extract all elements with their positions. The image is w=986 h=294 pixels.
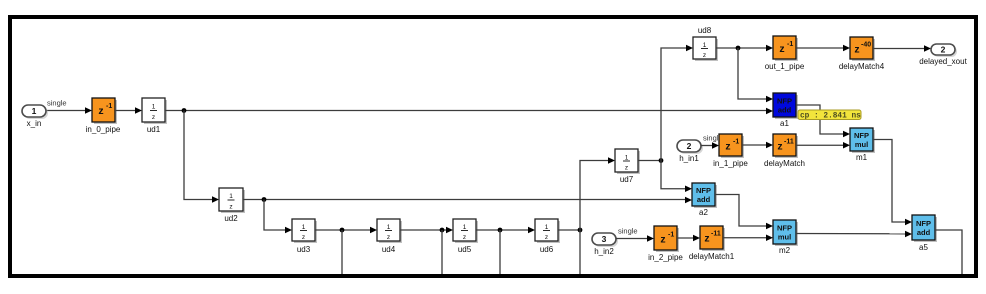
svg-text:1: 1 [302,224,306,231]
svg-text:m2: m2 [779,246,791,255]
svg-text:3: 3 [602,234,607,244]
svg-text:ud5: ud5 [458,245,472,254]
svg-text:NFP: NFP [696,186,711,195]
output port delayed_xout [919,44,967,66]
svg-text:x_in: x_in [27,119,42,128]
junction after ud6 [578,228,583,233]
svg-text:2: 2 [687,141,692,151]
wire junction ud3 down to border [341,230,343,274]
svg-text:z: z [779,43,784,55]
delay block in_2_pipe [648,226,683,262]
svg-text:2: 2 [941,45,946,55]
svg-text:NFP: NFP [777,224,792,233]
svg-text:in_2_pipe: in_2_pipe [648,253,683,262]
junction after ud1 [182,108,187,113]
multiplier m2 [773,220,798,255]
unit delay ud4 [377,219,402,254]
junction after ud4 [440,228,445,233]
svg-text:z: z [387,234,390,241]
svg-text:z: z [152,114,155,121]
svg-text:1: 1 [545,224,549,231]
unit delay ud5 [453,219,478,254]
svg-text:mul: mul [855,140,868,149]
svg-text:add: add [917,228,931,237]
svg-text:add: add [697,195,711,204]
timing tooltip cp 2.841 ns [798,110,861,120]
svg-text:m1: m1 [856,153,868,162]
wire out_1_pipe to delayMatch4 [796,45,850,52]
wire a1 to m1 [796,105,850,137]
svg-text:-40: -40 [861,42,871,49]
svg-text:-1: -1 [733,139,739,146]
svg-text:z: z [545,234,548,241]
svg-text:h_in1: h_in1 [679,154,699,163]
input port h_in2 [592,233,618,256]
junction after ud8 [736,46,741,51]
wire x_in to in_0_pipe [46,99,92,114]
delay block in_1_pipe [713,134,748,168]
delay block delayMatch4 [839,37,885,71]
adder a2 [692,183,717,217]
wire ud4 to ud5 [400,227,453,234]
svg-text:1: 1 [229,193,233,200]
wire junction ud7 up to ud8 [661,45,693,161]
svg-text:z: z [725,141,730,153]
delay block out_1_pipe [765,36,805,71]
svg-text:out_1_pipe: out_1_pipe [765,62,805,71]
wire in_1_pipe to delayMatch [742,142,773,149]
wire junction ud5 down to border [499,230,501,274]
svg-text:NFP: NFP [777,97,792,106]
multiplier m1 [850,128,875,162]
wire ud1 junction down to ud2 [184,111,219,203]
svg-text:single: single [618,227,638,236]
wire junction ud8 down to a1 [738,48,773,102]
wire delayMatch to m1 [796,142,850,149]
svg-text:mul: mul [778,233,791,242]
svg-text:ud6: ud6 [540,245,554,254]
svg-text:add: add [778,106,792,115]
svg-text:ud4: ud4 [382,245,396,254]
adder a1 [773,93,798,128]
svg-text:h_in2: h_in2 [594,247,614,256]
delay block delayMatch [764,134,805,168]
delay block delayMatch1 [689,226,735,261]
unit delay ud6 [535,219,560,254]
unit delay ud7 [615,149,640,184]
wire delayMatch1 to m2 [723,234,773,241]
svg-text:z: z [463,234,466,241]
svg-text:1: 1 [703,42,707,49]
unit delay ud2 [219,188,245,223]
junction after ud5 [498,228,503,233]
wire a5 down to border [935,230,962,274]
svg-text:a2: a2 [699,208,708,217]
long wire ud2 to a2 [243,197,692,204]
unit delay ud1 [142,98,167,134]
input port x_in [22,105,48,128]
unit delay ud8 [693,26,718,61]
input port h_in1 [677,140,703,163]
svg-text:1: 1 [463,224,467,231]
svg-text:z: z [660,234,665,246]
wire junction ud6 down to border [579,230,581,274]
svg-text:ud8: ud8 [698,26,712,35]
wire ud6 to junction [558,229,580,231]
svg-text:1: 1 [152,104,156,111]
svg-text:1: 1 [32,106,37,116]
wire ud3 to ud4 [315,227,377,234]
svg-text:delayMatch4: delayMatch4 [839,62,885,71]
wire ud2 junction down to ud3 [264,200,292,234]
delay block in_0_pipe [86,98,121,134]
svg-text:delayMatch1: delayMatch1 [689,252,735,261]
svg-text:ud1: ud1 [147,125,161,134]
junction after ud7 [659,158,664,163]
wire h_in1 to in_1_pipe [701,134,723,149]
svg-text:-11: -11 [784,139,794,146]
svg-text:-11: -11 [711,231,721,238]
svg-text:in_1_pipe: in_1_pipe [713,159,748,168]
wire in_2_pipe to delayMatch1 [677,235,700,242]
svg-text:a1: a1 [780,119,789,128]
svg-text:NFP: NFP [854,131,869,140]
svg-text:z: z [229,204,232,211]
svg-text:-1: -1 [668,232,674,239]
wire delayMatch4 to delayed_xout [873,45,931,52]
svg-text:ud2: ud2 [224,214,238,223]
junction after ud3 [340,228,345,233]
svg-text:-1: -1 [787,41,793,48]
wire junction ud6 up to ud7 [580,157,615,230]
svg-text:delayed_xout: delayed_xout [919,57,967,66]
wire ud5 to ud6 [476,227,535,234]
svg-text:delayMatch: delayMatch [764,159,805,168]
svg-text:z: z [704,233,709,245]
junction after ud2 [262,197,267,202]
svg-text:z: z [625,165,628,172]
wire junction ud4 down to border [441,230,443,274]
svg-text:-1: -1 [106,103,112,110]
svg-text:1: 1 [625,155,629,162]
wire m1 to a5 [873,140,912,226]
svg-text:single: single [47,99,67,108]
svg-text:NFP: NFP [916,219,931,228]
wire in_0_pipe to ud1 [115,107,142,114]
svg-text:ud3: ud3 [297,245,311,254]
wire m2 to a5 [796,231,912,238]
unit delay ud3 [292,219,317,254]
long wire ud1 to a1 [165,108,773,115]
wire ud8 to out_1_pipe [716,45,773,52]
svg-text:in_0_pipe: in_0_pipe [86,125,121,134]
svg-text:z: z [854,44,859,56]
wire a2 to m2 [715,195,773,230]
svg-text:ud7: ud7 [620,175,634,184]
svg-text:z: z [703,52,706,59]
svg-text:z: z [302,234,305,241]
svg-text:a5: a5 [919,243,928,252]
svg-text:cp : 2.841 ns: cp : 2.841 ns [800,112,861,120]
wire ud7 to junction [638,160,661,162]
adder a5 [912,215,937,252]
wire h_in2 to in_2_pipe [616,227,654,242]
svg-text:z: z [777,141,782,153]
svg-text:z: z [98,105,103,117]
wire junction ud7 down to a2 [661,161,692,193]
svg-text:1: 1 [387,224,391,231]
